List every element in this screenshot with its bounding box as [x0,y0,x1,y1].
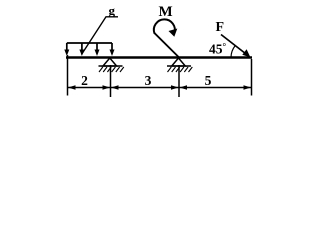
svg-text:3: 3 [145,73,152,88]
svg-text:2: 2 [81,73,88,88]
svg-text:g: g [109,3,116,18]
svg-text:F: F [216,20,225,35]
svg-text:M: M [159,4,173,20]
svg-text:5: 5 [205,73,212,88]
svg-text:45°: 45° [209,42,227,57]
